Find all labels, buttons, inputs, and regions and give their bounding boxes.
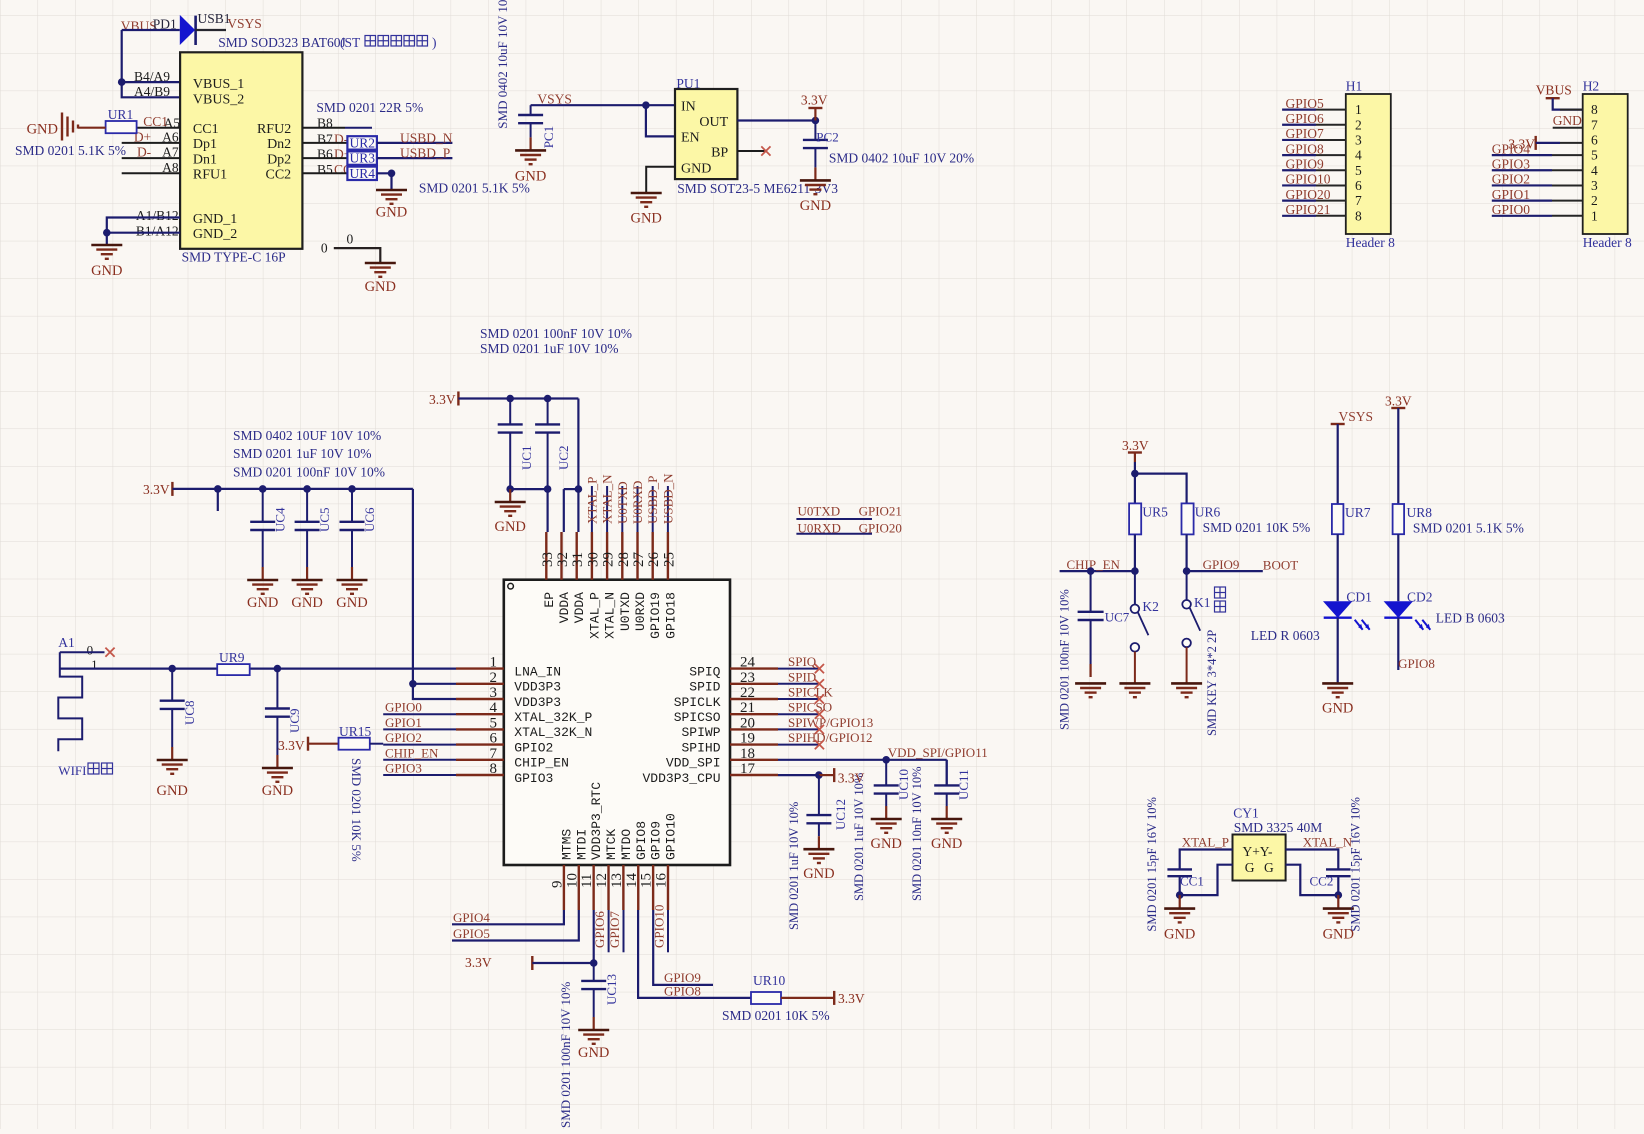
svg-text:5: 5 (490, 715, 498, 731)
svg-text:Dn1: Dn1 (193, 152, 217, 167)
svg-text:18: 18 (740, 746, 755, 762)
svg-text:VDDA: VDDA (572, 592, 587, 623)
svg-text:GPIO1: GPIO1 (1492, 187, 1530, 202)
svg-text:7: 7 (1355, 193, 1362, 208)
svg-text:GPIO3: GPIO3 (385, 761, 422, 776)
svg-text:6: 6 (1591, 132, 1598, 147)
svg-text:Header 8: Header 8 (1583, 235, 1632, 250)
svg-text:SPICLK: SPICLK (788, 685, 833, 700)
svg-text:3.3V: 3.3V (429, 392, 456, 407)
svg-text:Y-: Y- (1260, 844, 1273, 859)
svg-text:UR10: UR10 (753, 973, 786, 988)
svg-text:SMD 0201 5.1K 5%: SMD 0201 5.1K 5% (1413, 521, 1524, 536)
svg-text:30: 30 (585, 552, 601, 567)
svg-text:UR8: UR8 (1407, 505, 1433, 520)
svg-text:GND_1: GND_1 (193, 212, 237, 227)
svg-text:GND: GND (156, 783, 187, 799)
svg-text:G: G (1245, 860, 1255, 875)
svg-text:7: 7 (1591, 117, 1598, 132)
svg-text:XTAL_N: XTAL_N (600, 474, 615, 524)
svg-text:SPICLK: SPICLK (674, 695, 721, 710)
svg-text:): ) (432, 35, 437, 50)
svg-text:SMD 0201 1uF 10V 10%: SMD 0201 1uF 10V 10% (480, 341, 619, 356)
svg-text:UC7: UC7 (1105, 610, 1130, 625)
svg-text:UR7: UR7 (1345, 505, 1371, 520)
svg-text:SMD KEY 3*4*2 2P: SMD KEY 3*4*2 2P (1205, 630, 1219, 736)
svg-text:2: 2 (1355, 117, 1362, 132)
svg-text:20: 20 (740, 715, 755, 731)
svg-text:GND: GND (578, 1045, 609, 1061)
svg-text:26: 26 (646, 552, 662, 568)
svg-text:GPIO21: GPIO21 (859, 504, 902, 519)
svg-text:3.3V: 3.3V (143, 482, 170, 497)
svg-text:VBUS_2: VBUS_2 (193, 92, 244, 107)
svg-text:0: 0 (87, 642, 94, 657)
svg-text:B7: B7 (317, 132, 333, 147)
svg-text:CHIP_EN: CHIP_EN (514, 756, 569, 771)
svg-text:SMD 0201 1uF 10V 10%: SMD 0201 1uF 10V 10% (233, 446, 372, 461)
svg-text:3: 3 (490, 685, 498, 701)
svg-text:PC1: PC1 (541, 126, 556, 148)
svg-text:GPIO3: GPIO3 (1492, 156, 1531, 171)
svg-text:EP: EP (542, 592, 557, 608)
svg-text:SPIQ: SPIQ (689, 664, 720, 679)
svg-text:VDD3P3: VDD3P3 (514, 680, 561, 695)
svg-text:GND: GND (336, 595, 367, 611)
svg-text:11: 11 (579, 874, 595, 888)
svg-text:GND: GND (1553, 113, 1582, 128)
svg-text:SMD 0201 10nF 10V 10%: SMD 0201 10nF 10V 10% (910, 766, 924, 901)
svg-text:UR6: UR6 (1195, 504, 1221, 519)
svg-text:VSYS: VSYS (1339, 409, 1374, 424)
svg-text:GPIO2: GPIO2 (514, 740, 553, 755)
svg-text:LED B 0603: LED B 0603 (1436, 611, 1505, 626)
svg-text:33: 33 (540, 552, 556, 567)
svg-text:6: 6 (490, 731, 498, 747)
svg-text:U0TXD: U0TXD (798, 504, 841, 519)
svg-text:GPIO3: GPIO3 (514, 771, 553, 786)
svg-text:GPIO7: GPIO7 (607, 911, 622, 948)
svg-text:5: 5 (1355, 163, 1362, 178)
svg-text:MTDO: MTDO (619, 829, 634, 860)
svg-text:Dp2: Dp2 (267, 152, 291, 167)
svg-text:K2: K2 (1142, 599, 1159, 614)
svg-text:CC2: CC2 (1310, 874, 1334, 889)
svg-text:Header 8: Header 8 (1346, 235, 1395, 250)
svg-text:A4/B9: A4/B9 (134, 84, 170, 99)
svg-text:RFU2: RFU2 (257, 122, 291, 137)
svg-text:GND: GND (803, 866, 834, 882)
svg-text:UC8: UC8 (182, 700, 197, 725)
svg-text:GND: GND (630, 211, 661, 227)
svg-text:SMD SOD323 BAT60J: SMD SOD323 BAT60J (218, 35, 346, 50)
svg-text:LED R 0603: LED R 0603 (1251, 628, 1320, 643)
svg-text:GPIO2: GPIO2 (385, 730, 422, 745)
svg-text:23: 23 (740, 670, 755, 686)
svg-text:UR3: UR3 (350, 151, 376, 166)
svg-text:SMD 0201 5.1K 5%: SMD 0201 5.1K 5% (15, 143, 126, 158)
svg-text:4: 4 (1591, 163, 1598, 178)
svg-text:3.3V: 3.3V (1122, 438, 1149, 453)
svg-text:Dn2: Dn2 (267, 137, 291, 152)
svg-text:0: 0 (321, 240, 328, 255)
svg-text:GND: GND (1322, 701, 1353, 717)
svg-text:21: 21 (740, 700, 755, 716)
svg-text:GPIO6: GPIO6 (592, 911, 607, 948)
svg-text:SMD 0201 10K 5%: SMD 0201 10K 5% (1203, 520, 1311, 535)
svg-text:B6: B6 (317, 147, 333, 162)
svg-text:UC13: UC13 (604, 974, 619, 1005)
svg-text:8: 8 (490, 761, 498, 777)
svg-text:GPIO20: GPIO20 (1286, 187, 1331, 202)
svg-text:VDDA: VDDA (557, 592, 572, 623)
svg-text:3.3V: 3.3V (465, 955, 492, 970)
svg-text:GND: GND (515, 168, 546, 184)
svg-text:USBD_P: USBD_P (400, 146, 450, 161)
svg-text:GND: GND (1164, 926, 1195, 942)
svg-text:XTAL_N: XTAL_N (1303, 834, 1353, 849)
svg-text:LNA_IN: LNA_IN (514, 664, 561, 679)
svg-text:GPIO21: GPIO21 (1286, 202, 1331, 217)
svg-text:1: 1 (490, 655, 498, 671)
svg-text:9: 9 (549, 881, 565, 889)
svg-text:3.3V: 3.3V (838, 991, 865, 1006)
svg-text:GND_2: GND_2 (193, 227, 237, 242)
svg-text:SPIHD: SPIHD (681, 740, 720, 755)
svg-text:24: 24 (740, 655, 756, 671)
svg-text:SMD 0201 15pF 16V 10%: SMD 0201 15pF 16V 10% (1145, 797, 1159, 932)
svg-text:MTMS: MTMS (559, 829, 574, 860)
svg-text:VBUS: VBUS (1536, 83, 1572, 98)
svg-text:22: 22 (740, 685, 755, 701)
svg-text:SPICSO: SPICSO (788, 700, 832, 715)
svg-text:8: 8 (1591, 102, 1598, 117)
svg-text:GPIO9: GPIO9 (1203, 557, 1240, 572)
svg-text:SMD 0402 10uF 10V 20%: SMD 0402 10uF 10V 20% (829, 150, 974, 165)
svg-text:15: 15 (639, 873, 655, 888)
svg-text:UR1: UR1 (108, 107, 134, 122)
svg-text:GPIO5: GPIO5 (453, 926, 490, 941)
svg-text:GPIO0: GPIO0 (385, 700, 422, 715)
svg-text:CD2: CD2 (1407, 589, 1433, 604)
svg-text:MTDI: MTDI (574, 829, 589, 860)
svg-text:UC11: UC11 (956, 769, 971, 800)
svg-text:3: 3 (1355, 132, 1362, 147)
svg-text:OUT: OUT (699, 115, 728, 130)
svg-text:U0TXD: U0TXD (615, 481, 630, 524)
svg-text:UR5: UR5 (1142, 504, 1168, 519)
svg-text:SMD 0201 15pF 16V 10%: SMD 0201 15pF 16V 10% (1349, 797, 1363, 932)
svg-text:SMD 0201 100nF 10V 10%: SMD 0201 100nF 10V 10% (233, 465, 385, 480)
svg-text:SMD 0201 5.1K 5%: SMD 0201 5.1K 5% (419, 181, 530, 196)
svg-text:GPIO5: GPIO5 (1286, 96, 1325, 111)
svg-text:GND: GND (681, 162, 711, 177)
svg-text:SMD 0201 1uF 10V 10%: SMD 0201 1uF 10V 10% (787, 802, 801, 930)
svg-text:UC9: UC9 (287, 708, 302, 733)
svg-text:27: 27 (631, 552, 647, 568)
svg-text:1: 1 (1355, 102, 1362, 117)
svg-text:GPIO8: GPIO8 (1286, 141, 1325, 156)
svg-text:VDD3P3_RTC: VDD3P3_RTC (589, 782, 604, 860)
svg-text:UR2: UR2 (350, 136, 376, 151)
svg-text:U0TXD: U0TXD (618, 592, 633, 631)
svg-text:5: 5 (1591, 148, 1598, 163)
svg-text:17: 17 (740, 761, 756, 777)
svg-text:7: 7 (490, 746, 498, 762)
svg-text:0: 0 (347, 232, 354, 247)
svg-text:UC5: UC5 (317, 507, 332, 532)
svg-text:K1: K1 (1194, 595, 1211, 610)
svg-text:GPIO6: GPIO6 (1286, 111, 1325, 126)
svg-text:4: 4 (490, 700, 498, 716)
svg-text:PC2: PC2 (816, 129, 838, 144)
svg-text:USBD_P: USBD_P (645, 476, 660, 524)
svg-text:B4/A9: B4/A9 (134, 69, 170, 84)
svg-text:Dp1: Dp1 (193, 137, 217, 152)
svg-text:10: 10 (564, 873, 580, 888)
svg-text:VSYS: VSYS (227, 16, 262, 31)
svg-text:SMD 0201 10K 5%: SMD 0201 10K 5% (722, 1008, 830, 1023)
svg-text:3.3V: 3.3V (838, 770, 865, 785)
svg-text:SPIWP/GPIO13: SPIWP/GPIO13 (788, 715, 873, 730)
svg-text:19: 19 (740, 731, 755, 747)
svg-text:GND: GND (27, 122, 58, 138)
svg-text:EN: EN (681, 131, 700, 146)
svg-text:XTAL_P: XTAL_P (1182, 834, 1229, 849)
svg-text:SMD 0402 10uF 10V 10%: SMD 0402 10uF 10V 10% (495, 0, 510, 129)
svg-text:SMD 3325 40M: SMD 3325 40M (1234, 820, 1323, 835)
svg-text:USB1: USB1 (198, 11, 231, 26)
svg-text:VBUS: VBUS (121, 18, 157, 33)
svg-text:RFU1: RFU1 (193, 168, 227, 183)
svg-text:GND: GND (870, 836, 901, 852)
svg-text:SMD 0201 100nF 10V 10%: SMD 0201 100nF 10V 10% (558, 981, 573, 1128)
svg-text:SMD 0201 10K 5%: SMD 0201 10K 5% (349, 758, 364, 862)
svg-text:VDD_SPI: VDD_SPI (666, 756, 721, 771)
svg-text:GPIO18: GPIO18 (663, 592, 678, 639)
svg-text:UR9: UR9 (219, 650, 245, 665)
svg-text:MTCK: MTCK (604, 829, 619, 860)
svg-text:GPIO10: GPIO10 (663, 813, 678, 860)
svg-text:GND: GND (365, 279, 396, 295)
svg-text:GND: GND (262, 783, 293, 799)
svg-text:GPIO2: GPIO2 (1492, 172, 1530, 187)
svg-text:14: 14 (624, 873, 640, 889)
svg-text:8: 8 (1355, 208, 1362, 223)
svg-text:SMD 0402 10UF 10V 10%: SMD 0402 10UF 10V 10% (233, 428, 381, 443)
svg-text:SPIQ: SPIQ (788, 654, 817, 669)
svg-text:VDD3P3_CPU: VDD3P3_CPU (642, 771, 720, 786)
svg-text:USBD_N: USBD_N (660, 473, 675, 524)
svg-text:SPIWP: SPIWP (681, 725, 720, 740)
svg-text:SPID: SPID (689, 680, 720, 695)
svg-text:3.3V: 3.3V (1385, 394, 1412, 409)
svg-text:VBUS_1: VBUS_1 (193, 77, 244, 92)
svg-text:GND: GND (91, 263, 122, 279)
svg-text:3.3V: 3.3V (801, 93, 828, 108)
svg-text:SPIHD/GPIO12: SPIHD/GPIO12 (788, 730, 873, 745)
svg-text:SMD 0201 22R 5%: SMD 0201 22R 5% (316, 100, 423, 115)
svg-text:GND: GND (247, 595, 278, 611)
svg-text:3.3V: 3.3V (278, 738, 305, 753)
svg-text:GPIO1: GPIO1 (385, 715, 422, 730)
svg-text:GND: GND (494, 519, 525, 535)
svg-text:WIFI: WIFI (58, 763, 86, 778)
svg-text:4: 4 (1355, 148, 1362, 163)
svg-text:BOOT: BOOT (1263, 557, 1298, 572)
svg-text:UC12: UC12 (833, 799, 848, 830)
svg-text:CC1: CC1 (193, 122, 219, 137)
svg-text:(ST: (ST (340, 35, 361, 50)
svg-text:2: 2 (1591, 193, 1598, 208)
svg-text:B1/A12: B1/A12 (136, 223, 179, 238)
svg-text:U0RXD: U0RXD (633, 592, 648, 631)
svg-text:XTAL_N: XTAL_N (603, 592, 618, 639)
svg-text:A1/B12: A1/B12 (136, 208, 179, 223)
svg-text:H1: H1 (1346, 79, 1363, 94)
svg-text:UC1: UC1 (519, 445, 534, 470)
svg-text:SMD 0201 100nF 10V 10%: SMD 0201 100nF 10V 10% (1058, 589, 1072, 730)
svg-text:GPIO8: GPIO8 (1398, 656, 1435, 671)
svg-text:XTAL_P: XTAL_P (584, 477, 599, 524)
svg-text:GND: GND (291, 595, 322, 611)
svg-text:13: 13 (609, 873, 625, 888)
svg-text:GND: GND (931, 836, 962, 852)
svg-text:VDD3P3: VDD3P3 (514, 695, 561, 710)
svg-text:IN: IN (681, 100, 696, 115)
svg-text:CY1: CY1 (1233, 806, 1259, 821)
svg-text:G: G (1264, 860, 1274, 875)
svg-text:CC1: CC1 (1180, 874, 1204, 889)
svg-text:6: 6 (1355, 178, 1362, 193)
svg-text:28: 28 (616, 552, 632, 567)
svg-text:GPIO4: GPIO4 (1492, 141, 1531, 156)
svg-text:USBD_N: USBD_N (400, 130, 453, 145)
svg-text:SMD TYPE-C 16P: SMD TYPE-C 16P (182, 250, 286, 265)
svg-text:GPIO9: GPIO9 (1286, 156, 1325, 171)
svg-text:SPID: SPID (788, 669, 816, 684)
svg-text:3: 3 (1591, 178, 1598, 193)
svg-text:GPIO0: GPIO0 (1492, 202, 1531, 217)
svg-text:31: 31 (570, 552, 586, 567)
svg-text:16: 16 (653, 873, 669, 889)
svg-text:CHIP_EN: CHIP_EN (385, 745, 439, 760)
svg-text:H2: H2 (1583, 79, 1600, 94)
svg-text:UC10: UC10 (896, 769, 911, 800)
svg-text:32: 32 (555, 552, 571, 567)
svg-text:UC4: UC4 (273, 507, 288, 532)
svg-text:A1: A1 (58, 635, 75, 650)
svg-text:GPIO10: GPIO10 (1286, 172, 1331, 187)
svg-text:Y+: Y+ (1243, 844, 1260, 859)
svg-text:UC2: UC2 (556, 445, 571, 470)
svg-text:GPIO9: GPIO9 (649, 821, 664, 860)
svg-text:25: 25 (661, 552, 677, 567)
svg-text:UR4: UR4 (350, 166, 376, 181)
svg-text:XTAL_32K_P: XTAL_32K_P (514, 710, 592, 725)
svg-text:B5: B5 (317, 162, 333, 177)
svg-text:12: 12 (594, 873, 610, 888)
svg-text:GPIO8: GPIO8 (664, 984, 701, 999)
svg-text:GPIO7: GPIO7 (1286, 126, 1325, 141)
svg-text:SMD 0201 1uF 10V 10%: SMD 0201 1uF 10V 10% (852, 773, 866, 901)
svg-text:GND: GND (800, 198, 831, 214)
svg-text:1: 1 (1591, 208, 1598, 223)
svg-text:CC2: CC2 (266, 168, 292, 183)
svg-text:XTAL_32K_N: XTAL_32K_N (514, 725, 592, 740)
svg-text:VDD_SPI/GPIO11: VDD_SPI/GPIO11 (888, 745, 988, 760)
svg-text:GPIO4: GPIO4 (453, 910, 490, 925)
svg-text:1: 1 (91, 657, 98, 672)
svg-text:2: 2 (490, 670, 498, 686)
svg-text:UC6: UC6 (362, 507, 377, 532)
svg-text:BP: BP (711, 146, 728, 161)
svg-text:UR15: UR15 (339, 724, 372, 739)
svg-text:XTAL_P: XTAL_P (587, 592, 602, 639)
svg-text:29: 29 (601, 552, 617, 567)
svg-text:U0RXD: U0RXD (630, 481, 645, 524)
svg-text:CD1: CD1 (1346, 589, 1372, 604)
svg-text:SPICSO: SPICSO (674, 710, 721, 725)
svg-text:SMD 0201 100nF 10V 10%: SMD 0201 100nF 10V 10% (480, 326, 632, 341)
svg-text:GND: GND (376, 205, 407, 221)
svg-text:GPIO8: GPIO8 (634, 821, 649, 860)
svg-text:GPIO19: GPIO19 (648, 592, 663, 639)
